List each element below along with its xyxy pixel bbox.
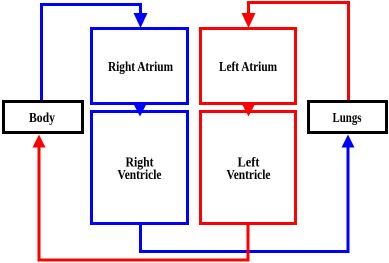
arrowhead blue Right Atrium to Right Ventricle <box>134 104 147 117</box>
arrowhead red Left Atrium to Left Ventricle <box>242 104 255 117</box>
box Lungs <box>309 102 387 133</box>
box Body <box>4 102 83 133</box>
wire red Lungs top to Left Atrium (oxygenated) <box>249 3 349 101</box>
svg-text:Right Atrium: Right Atrium <box>108 59 174 74</box>
svg-text:Body: Body <box>29 110 55 125</box>
label Right Ventricle <box>118 155 162 183</box>
arrowhead red into Left Atrium top <box>242 13 256 28</box>
svg-text:Ventricle: Ventricle <box>227 167 271 182</box>
svg-text:Left Atrium: Left Atrium <box>219 59 278 74</box>
arrowhead red into Body bottom <box>33 135 46 148</box>
arrowhead blue into Lungs bottom <box>342 135 355 148</box>
box Left Ventricle <box>201 112 296 224</box>
wire blue Body top to Right Atrium (deoxygenated return) <box>42 5 141 101</box>
box Right Atrium <box>92 29 188 104</box>
svg-text:Lungs: Lungs <box>333 110 362 125</box>
label Left Ventricle <box>227 155 271 183</box>
arrowhead blue into Right Atrium top <box>134 13 148 28</box>
box Left Atrium <box>201 29 296 104</box>
wire blue Right Ventricle bottom to Lungs bottom <box>141 147 349 252</box>
box Right Ventricle <box>92 112 188 224</box>
svg-text:Ventricle: Ventricle <box>118 167 162 182</box>
wire red Left Ventricle bottom to Body bottom <box>39 147 248 260</box>
